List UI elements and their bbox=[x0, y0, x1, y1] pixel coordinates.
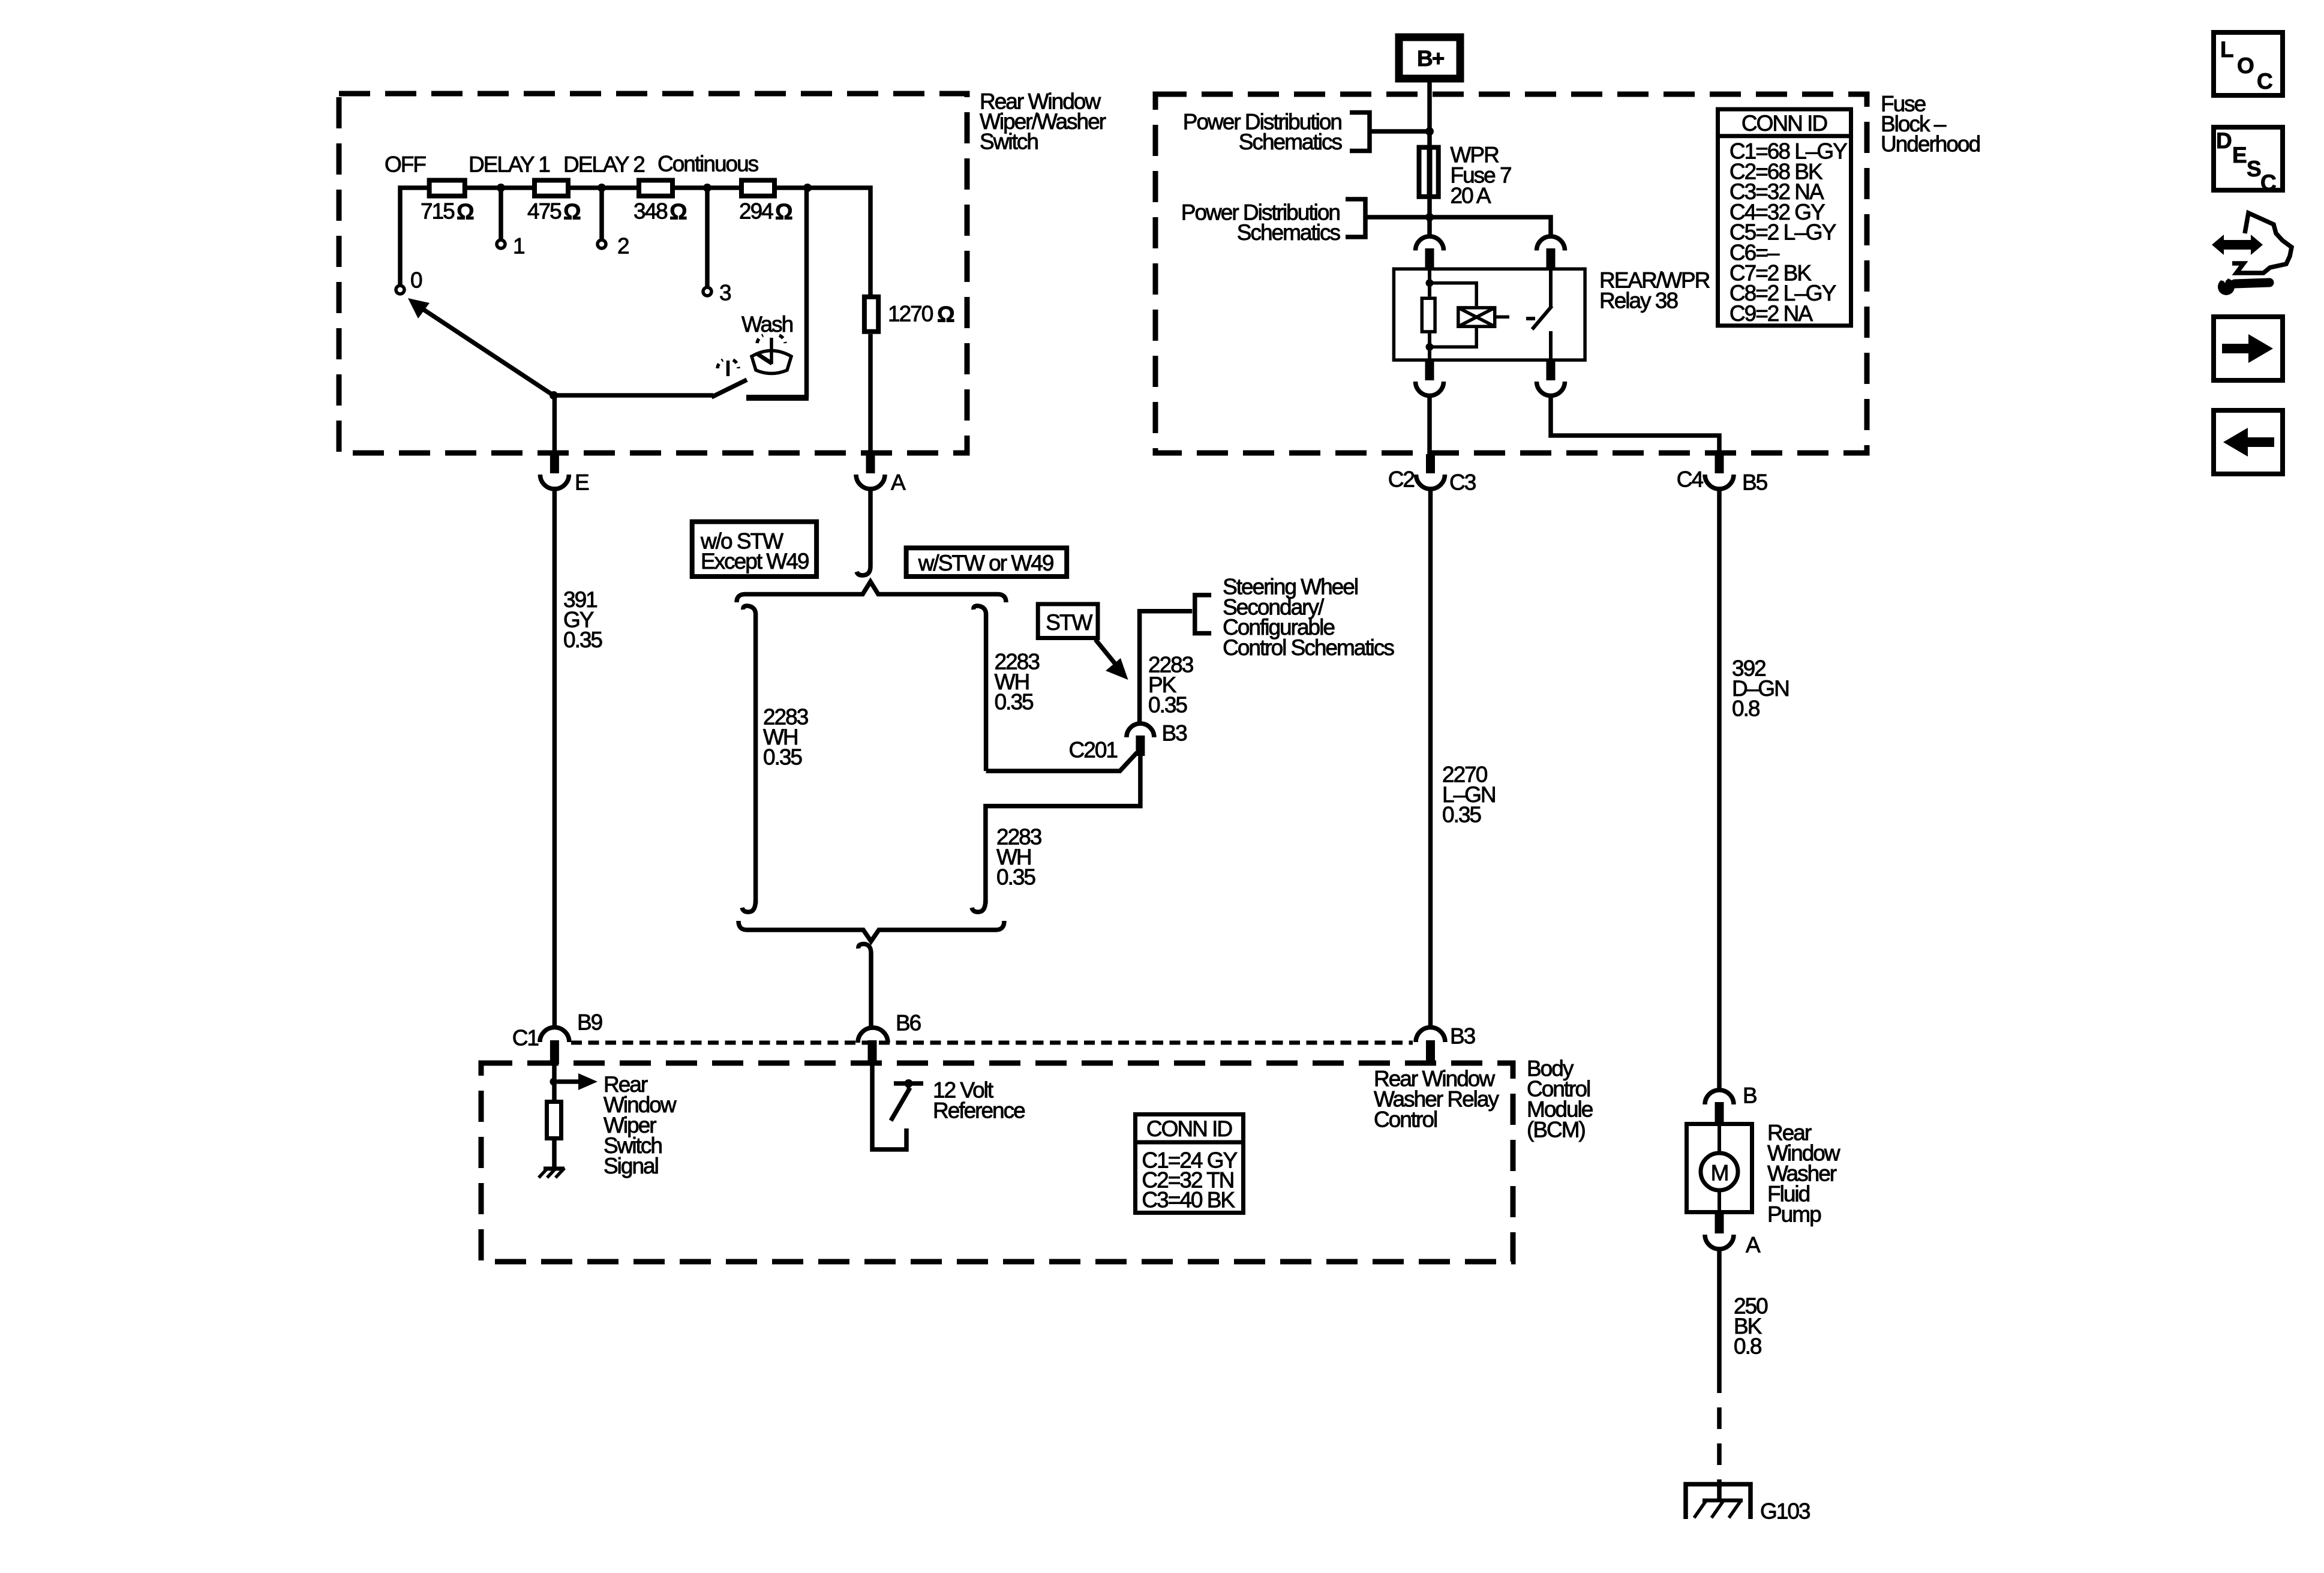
svg-text:0.8: 0.8 bbox=[1732, 697, 1759, 721]
svg-text:348: 348 bbox=[633, 199, 667, 224]
svg-text:B6: B6 bbox=[896, 1011, 921, 1035]
ref bracket Steering Wheel bbox=[1195, 595, 1211, 634]
arrow STW callout bbox=[1095, 640, 1116, 665]
wire pump to ground 250 BK bbox=[1717, 1249, 1722, 1371]
wire merged to B6 with top curl bbox=[858, 944, 871, 1028]
svg-text:0.35: 0.35 bbox=[995, 690, 1034, 715]
svg-text:B3: B3 bbox=[1162, 721, 1187, 746]
svg-text:475: 475 bbox=[527, 199, 562, 224]
svg-text:Pump: Pump bbox=[1767, 1202, 1821, 1227]
svg-text:Signal: Signal bbox=[603, 1154, 658, 1178]
svg-text:0.35: 0.35 bbox=[996, 865, 1035, 890]
svg-text:0: 0 bbox=[410, 268, 422, 293]
svg-text:DELAY 2: DELAY 2 bbox=[563, 152, 644, 177]
svg-text:294: 294 bbox=[739, 199, 773, 224]
connector relay pin bottom-left bbox=[1425, 361, 1434, 380]
svg-text:C: C bbox=[2257, 69, 2272, 94]
svg-text:Control: Control bbox=[1374, 1107, 1437, 1132]
power symbol B+ bbox=[1399, 37, 1460, 79]
svg-text:Ω: Ω bbox=[563, 200, 581, 224]
node junction after 475 bbox=[597, 184, 606, 192]
wire fuse to relay bbox=[1427, 199, 1432, 236]
connector relay pin bottom-right bbox=[1547, 361, 1556, 380]
wire below C201 bbox=[986, 755, 1140, 903]
connector pin C1/B9 bbox=[540, 1028, 569, 1043]
svg-text:20 A: 20 A bbox=[1451, 184, 1491, 208]
svg-text:E: E bbox=[2232, 143, 2247, 167]
svg-text:0.35: 0.35 bbox=[1442, 803, 1481, 827]
relay switch contact top bbox=[1549, 269, 1553, 308]
svg-text:C3=40 BK: C3=40 BK bbox=[1142, 1188, 1235, 1212]
connector pin C4/B5 bbox=[1715, 454, 1724, 473]
box STW bbox=[1038, 604, 1098, 638]
wire wash right contact bar bbox=[746, 395, 809, 401]
svg-text:715: 715 bbox=[421, 199, 455, 224]
svg-text:Ω: Ω bbox=[937, 302, 954, 327]
node connector row (dotted) bbox=[571, 1041, 1413, 1045]
ground G103 bbox=[1686, 1484, 1750, 1519]
relay coil wire left bbox=[1428, 269, 1431, 296]
wire relay out left bbox=[1427, 396, 1432, 454]
svg-text:DELAY 1: DELAY 1 bbox=[469, 152, 550, 177]
svg-text:OFF: OFF bbox=[385, 152, 426, 177]
connector relay pin top-right bbox=[1537, 236, 1565, 251]
wire C3 to BCM B3 (2270 L-GN) bbox=[1428, 489, 1433, 1028]
svg-text:C1: C1 bbox=[512, 1026, 539, 1050]
connector pin B3 (BCM) bbox=[1416, 1028, 1445, 1043]
brace merge lower bbox=[738, 921, 1004, 941]
table CONN ID BCM bbox=[1136, 1115, 1244, 1213]
connector pin A bbox=[866, 454, 875, 473]
wire coil branch bbox=[1430, 283, 1476, 306]
connector pin C2/C3 bbox=[1426, 454, 1435, 473]
wire branch right bottom curl bbox=[972, 900, 986, 912]
connector pin B (pump) bbox=[1705, 1090, 1734, 1104]
icon wiper fan (solid) with spray bbox=[752, 335, 791, 374]
svg-text:0.35: 0.35 bbox=[763, 745, 802, 770]
node junction after 294 bbox=[803, 184, 812, 192]
svg-text:2: 2 bbox=[617, 234, 629, 259]
connector pin B6 bbox=[858, 1028, 888, 1043]
wire relay out right to C4 bbox=[1551, 396, 1719, 454]
box w/STW or W49 bbox=[906, 548, 1067, 577]
relay switch contact bottom bbox=[1549, 331, 1553, 362]
connector relay pin top-left bbox=[1416, 236, 1444, 251]
svg-text:D: D bbox=[2216, 128, 2232, 153]
svg-text:CONN ID: CONN ID bbox=[1146, 1116, 1232, 1141]
resistor R 715 ohm bbox=[430, 181, 465, 196]
svg-text:G103: G103 bbox=[1760, 1499, 1810, 1524]
connector pin A (pump) bbox=[1715, 1213, 1724, 1233]
resistor relay internal bbox=[1422, 298, 1435, 332]
svg-text:Ω: Ω bbox=[775, 200, 792, 224]
svg-text:Underhood: Underhood bbox=[1881, 132, 1980, 157]
wire stub terminal 2 bbox=[599, 188, 604, 239]
svg-text:0.35: 0.35 bbox=[1148, 693, 1187, 718]
wire C1 into BCM bbox=[552, 1064, 557, 1100]
svg-text:O: O bbox=[2237, 53, 2254, 78]
wire B5 to pump B (392 D-GN) bbox=[1717, 489, 1722, 1089]
coil solenoid box with X bbox=[1458, 308, 1495, 326]
svg-text:Wash: Wash bbox=[741, 312, 793, 337]
svg-text:0.8: 0.8 bbox=[1734, 1334, 1761, 1359]
svg-text:Schematics: Schematics bbox=[1237, 220, 1341, 245]
fuse WPR Fuse 7 20A bbox=[1419, 148, 1439, 197]
wire E to C1 bbox=[553, 395, 557, 454]
svg-text:Control Schematics: Control Schematics bbox=[1223, 635, 1394, 660]
resistor R 1270 ohm bbox=[864, 297, 878, 332]
svg-text:S: S bbox=[2247, 157, 2261, 181]
resistor R 475 ohm bbox=[535, 181, 568, 196]
motor Rear Window Washer Fluid Pump bbox=[1687, 1124, 1752, 1212]
relay switch blade bbox=[1532, 306, 1552, 329]
svg-text:B9: B9 bbox=[577, 1010, 602, 1035]
icon back arrow box bbox=[2214, 410, 2283, 474]
icon wash spray (dashed) bbox=[717, 360, 738, 368]
box w/o STW Except W49 bbox=[692, 522, 816, 577]
svg-text:B3: B3 bbox=[1450, 1024, 1475, 1049]
ground chassis (switch signal) bbox=[544, 1167, 565, 1171]
wire branch right (w/STW) top curl bbox=[974, 606, 986, 771]
icon DESC box bbox=[2214, 127, 2283, 190]
svg-text:B5: B5 bbox=[1742, 470, 1768, 495]
wire wash contact riser bbox=[804, 188, 809, 398]
icon next arrow box bbox=[2214, 317, 2283, 380]
svg-text:CONN ID: CONN ID bbox=[1742, 111, 1827, 136]
connector C201 pin B3 bbox=[1127, 724, 1154, 737]
box Fuse Block - Underhood (dashed) bbox=[1155, 94, 1867, 453]
svg-text:(BCM): (BCM) bbox=[1527, 1118, 1586, 1142]
svg-text:B: B bbox=[1743, 1083, 1756, 1108]
ref bracket Power Distribution Schematics (upper) bbox=[1350, 113, 1370, 151]
svg-text:Reference: Reference bbox=[933, 1098, 1025, 1123]
wire resistor to ground bbox=[552, 1140, 557, 1167]
resistor R 348 ohm bbox=[639, 181, 672, 196]
wire A down with end curl bbox=[857, 489, 870, 575]
svg-text:w/STW or W49: w/STW or W49 bbox=[918, 551, 1053, 575]
svg-text:Switch: Switch bbox=[980, 130, 1038, 154]
wire top bus bbox=[400, 188, 870, 296]
connector pin E bbox=[550, 454, 559, 473]
svg-text:Relay 38: Relay 38 bbox=[1599, 289, 1677, 313]
relay REAR/WPR Relay 38 box bbox=[1394, 269, 1585, 360]
brace split upper bbox=[737, 582, 1006, 603]
svg-text:C2: C2 bbox=[1388, 467, 1415, 492]
node junction bbox=[550, 1078, 558, 1086]
icon LOC box bbox=[2214, 32, 2283, 95]
svg-text:Ω: Ω bbox=[457, 200, 474, 224]
arrow Rear Window Wiper Switch Signal bbox=[557, 1079, 580, 1084]
table CONN ID fuse block bbox=[1718, 109, 1851, 326]
svg-text:A: A bbox=[891, 470, 906, 495]
svg-text:0.35: 0.35 bbox=[563, 628, 602, 652]
svg-text:C: C bbox=[2260, 170, 2276, 195]
wire branch left (w/o STW) top curl bbox=[743, 606, 756, 903]
svg-text:M: M bbox=[1711, 1161, 1728, 1185]
wire branch to relay switch side bbox=[1430, 217, 1551, 236]
svg-text:Except W49: Except W49 bbox=[701, 549, 809, 574]
resistor BCM internal bbox=[547, 1102, 562, 1139]
svg-text:Schematics: Schematics bbox=[1239, 130, 1343, 154]
box Body Control Module (dashed) bbox=[481, 1063, 1513, 1262]
svg-text:C4: C4 bbox=[1677, 467, 1704, 492]
svg-text:C9=2 NA: C9=2 NA bbox=[1730, 301, 1813, 326]
svg-text:C201: C201 bbox=[1069, 738, 1118, 763]
wire stub terminal 3 bbox=[705, 188, 710, 286]
wire dashed to G103 bbox=[1717, 1371, 1722, 1488]
svg-text:1: 1 bbox=[513, 234, 524, 259]
svg-text:E: E bbox=[575, 470, 589, 495]
box Rear Window Wiper/Washer Switch (dashed) bbox=[339, 94, 967, 453]
svg-text:A: A bbox=[1746, 1233, 1761, 1257]
svg-text:L: L bbox=[2220, 37, 2233, 62]
node switch common junction bbox=[550, 391, 558, 400]
wire common to wash contact bbox=[554, 393, 713, 398]
svg-text:B+: B+ bbox=[1417, 46, 1445, 71]
wire stub terminal 1 bbox=[499, 188, 503, 239]
switch wash blade (open) bbox=[711, 380, 747, 397]
switch 12 volt reference blade bbox=[891, 1088, 910, 1121]
svg-text:C3: C3 bbox=[1449, 470, 1476, 495]
svg-text:Continuous: Continuous bbox=[657, 152, 759, 176]
wire B+ down bbox=[1427, 79, 1432, 147]
svg-text:3: 3 bbox=[719, 281, 731, 305]
switch wiper arm with arrowhead bbox=[420, 307, 553, 395]
wire B6 12 volt reference switch bbox=[872, 1064, 906, 1149]
icon service repair (outline, arrow, wrench) bbox=[2232, 213, 2292, 273]
node junction after 715 bbox=[497, 184, 505, 192]
node junction after 348 bbox=[703, 184, 711, 192]
wire jog to C201 bbox=[986, 752, 1137, 771]
node terminal 0 bbox=[396, 286, 404, 294]
resistor R 294 ohm bbox=[741, 181, 774, 196]
wire 2283 PK from steering wheel ref bbox=[1140, 611, 1193, 724]
ref bracket Power Distribution Schematics (lower) bbox=[1346, 199, 1365, 237]
svg-text:Ω: Ω bbox=[669, 200, 687, 224]
wire branch left bottom curl bbox=[742, 900, 756, 912]
svg-text:STW: STW bbox=[1046, 610, 1092, 635]
svg-text:1270: 1270 bbox=[888, 302, 933, 326]
